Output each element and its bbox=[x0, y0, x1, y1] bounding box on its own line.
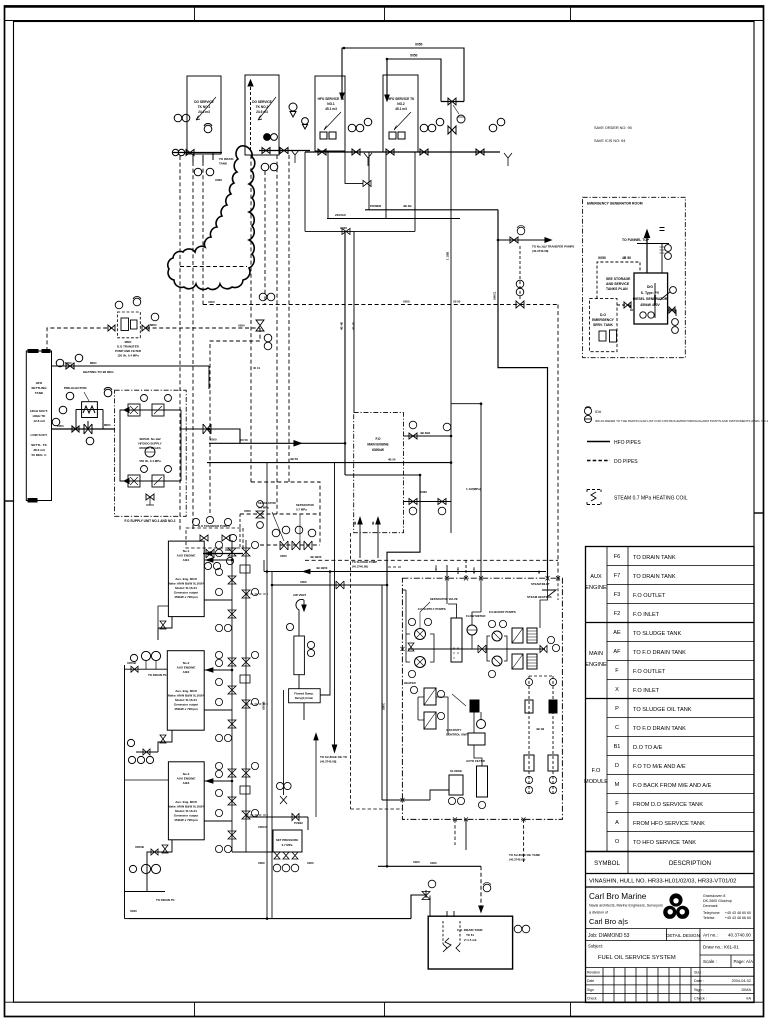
svg-text:TO SLUDGE PUMP: TO SLUDGE PUMP bbox=[352, 560, 377, 564]
no-pressure unit box bbox=[273, 830, 302, 852]
DO drop pipe bbox=[288, 155, 290, 482]
DO separator supply bbox=[240, 513, 320, 515]
instruments AE3 bbox=[215, 762, 222, 769]
svg-text:38.6 m3: 38.6 m3 bbox=[33, 448, 45, 452]
group column divider bbox=[606, 547, 608, 852]
footer strip divider 3 bbox=[570, 1002, 572, 1016]
top pump P1 bbox=[128, 404, 140, 416]
row lines bbox=[607, 565, 754, 567]
DO filter bypass line bbox=[47, 328, 112, 351]
main engine line from module bbox=[404, 435, 452, 437]
svg-text:4B 4B2: 4B 4B2 bbox=[420, 431, 431, 435]
arrowhead left bbox=[303, 569, 310, 573]
valve X shape bbox=[84, 424, 92, 434]
valve cluster on X020 bbox=[342, 228, 350, 234]
svg-text:SYMBOL: SYMBOL bbox=[594, 860, 620, 867]
svg-text:Aux. Eng. MCR: Aux. Eng. MCR bbox=[175, 689, 197, 693]
svg-text:Sign :: Sign : bbox=[694, 988, 704, 992]
DO service tank no.1 bbox=[187, 76, 221, 154]
svg-text:0.7 MPa: 0.7 MPa bbox=[282, 843, 293, 847]
main engine box feed bbox=[353, 231, 355, 412]
instrument balloon bbox=[672, 327, 679, 334]
subject row bottom bbox=[586, 967, 755, 969]
valve V-eg2 bbox=[669, 307, 675, 313]
instrument bbox=[264, 342, 272, 350]
svg-text:X060: X060 bbox=[65, 361, 72, 365]
filling arrowhead bbox=[340, 93, 344, 99]
rack2 elements bbox=[549, 678, 556, 685]
svg-text:X050: X050 bbox=[403, 300, 410, 304]
instrument balloon bbox=[665, 245, 672, 252]
heater coil bbox=[83, 406, 95, 413]
valve in box bbox=[222, 535, 230, 541]
svg-text:ID#: ID# bbox=[595, 409, 602, 414]
bypass valve bottom bbox=[146, 494, 154, 500]
svg-text:450kW x 720rpm: 450kW x 720rpm bbox=[174, 595, 198, 599]
filling line lower bbox=[387, 59, 441, 102]
tank3 drop right bbox=[327, 152, 329, 219]
svg-text:Revision: Revision bbox=[587, 971, 600, 975]
svg-text:HIGH SUCT.: HIGH SUCT. bbox=[30, 409, 48, 413]
level gauge balloon bbox=[670, 287, 677, 294]
instrument cluster bbox=[204, 562, 211, 569]
relief Y symbol right bbox=[504, 153, 512, 166]
scale/page divider bbox=[730, 955, 732, 968]
svg-text:SEPARATOR: SEPARATOR bbox=[258, 501, 277, 505]
funnel exhaust line bbox=[646, 237, 648, 273]
tank internal unit 1 bbox=[599, 331, 606, 341]
viscosity pipes bbox=[474, 712, 481, 733]
boundary crossing marks bbox=[401, 576, 561, 821]
tank4 drop mid bbox=[385, 152, 387, 219]
legend dashed line sample bbox=[587, 460, 610, 462]
module internal riser 1 bbox=[446, 578, 448, 604]
main engine return line bbox=[404, 501, 452, 503]
riser from 462 up bbox=[480, 404, 482, 579]
tank internal unit 2 bbox=[610, 330, 617, 342]
svg-text:Naval architects, Marine Engin: Naval architects, Marine Engineers, Surv… bbox=[589, 904, 663, 908]
svg-text:PUMP AND FILTER: PUMP AND FILTER bbox=[115, 349, 142, 353]
svg-text:TO HFO SERVICE TANK: TO HFO SERVICE TANK bbox=[633, 840, 696, 846]
fuel line to generator bbox=[617, 305, 634, 310]
svg-text:Make: MAN B&W 5L16/24: Make: MAN B&W 5L16/24 bbox=[168, 582, 204, 586]
X valve bbox=[206, 549, 214, 558]
valve chain AE1 bbox=[228, 548, 236, 556]
steam trap squares on tank3 bbox=[320, 132, 327, 139]
sludge line from module bbox=[523, 819, 525, 862]
legend table text bbox=[584, 554, 712, 846]
AE3 supply stub bbox=[204, 780, 232, 782]
svg-text:DIMA: DIMA bbox=[742, 988, 752, 992]
supply pump 2 bbox=[415, 657, 426, 668]
svg-text:SEPARATOR VALVE: SEPARATOR VALVE bbox=[430, 597, 458, 601]
air intake hash bbox=[660, 247, 665, 253]
suction line MDO bbox=[52, 428, 115, 430]
vent riser bbox=[315, 734, 317, 817]
svg-text:4B 50: 4B 50 bbox=[622, 256, 631, 260]
svg-text:X050: X050 bbox=[410, 54, 418, 58]
svg-text:MAIN ENGINE: MAIN ENGINE bbox=[367, 443, 388, 447]
valve chain AE3 bbox=[228, 769, 236, 777]
svg-text:Generator output: Generator output bbox=[174, 703, 199, 707]
svg-text:SEPARATOR: SEPARATOR bbox=[296, 503, 315, 507]
drain header bbox=[125, 891, 166, 893]
svg-text:O: O bbox=[615, 839, 620, 845]
instrument below bbox=[206, 168, 214, 176]
module main flow line bbox=[408, 648, 545, 650]
dashed crosstie above module bbox=[388, 566, 402, 568]
revision rows bbox=[586, 975, 755, 977]
svg-text:SAVE ICIS NO: 94: SAVE ICIS NO: 94 bbox=[594, 139, 625, 143]
DO line to module bbox=[557, 305, 559, 579]
svg-text:X050: X050 bbox=[210, 438, 217, 442]
svg-text:+45 43 48 66 60: +45 43 48 66 60 bbox=[725, 916, 751, 920]
valve on header bbox=[448, 98, 456, 105]
legend instrument symbol bbox=[584, 407, 591, 414]
separator instruments bbox=[272, 529, 280, 537]
symbol/description row bbox=[586, 873, 755, 875]
valve right bbox=[142, 325, 149, 331]
heater outlet bbox=[436, 697, 448, 735]
gauge leader bbox=[453, 105, 459, 114]
svg-text:X050: X050 bbox=[208, 300, 215, 304]
title block outline bbox=[586, 852, 755, 1003]
AE2 drain piping bbox=[136, 730, 172, 752]
svg-text:TK 61: TK 61 bbox=[466, 933, 474, 937]
svg-text:X020: X020 bbox=[307, 861, 314, 865]
rotated pipe labels bbox=[262, 252, 497, 710]
tank4 drop left bbox=[368, 152, 370, 210]
svg-text:F.O INLET: F.O INLET bbox=[633, 688, 660, 694]
rack riser down to pumps bbox=[405, 590, 407, 634]
fuel rack vertical 2 bbox=[245, 540, 247, 852]
instrument with dome bbox=[204, 125, 212, 133]
valve top right bbox=[448, 126, 456, 134]
unit inlet arrows bbox=[124, 408, 129, 413]
svg-text:SETTLING: SETTLING bbox=[31, 386, 47, 390]
drop pipes below manifold ticks bbox=[193, 153, 213, 163]
instrument balloon bbox=[665, 253, 672, 260]
valve bbox=[160, 735, 166, 743]
DO branch down bbox=[210, 328, 260, 514]
DO drop pipe bbox=[250, 155, 252, 482]
svg-text:Telefax: Telefax bbox=[703, 916, 715, 920]
module bottom-left pipe bbox=[402, 790, 449, 800]
svg-text:a division of: a division of bbox=[589, 911, 608, 915]
meter outlet bbox=[303, 703, 305, 720]
svg-text:SEE STORAGE: SEE STORAGE bbox=[606, 277, 631, 281]
valve in box bbox=[200, 535, 208, 541]
svg-text:F.O SUPPLY UNIT NO.1 AND NO.2: F.O SUPPLY UNIT NO.1 AND NO.2 bbox=[125, 519, 176, 523]
svg-text:HFO/DO SUPPLY: HFO/DO SUPPLY bbox=[138, 442, 161, 446]
svg-text:Art no.:: Art no.: bbox=[703, 933, 718, 938]
DO crossover in cloud bbox=[180, 266, 247, 268]
svg-text:FROM D.O SERVICE TANK: FROM D.O SERVICE TANK bbox=[633, 802, 703, 808]
svg-text:X06C: X06C bbox=[258, 861, 265, 865]
DO to module dashed bbox=[305, 559, 558, 561]
feed valves bbox=[292, 814, 299, 821]
svg-text:M: M bbox=[615, 782, 620, 788]
instrument pair on X050 bbox=[259, 293, 267, 301]
flow meter circle bbox=[467, 625, 477, 635]
branch C instruments bbox=[276, 782, 283, 789]
svg-text:F.O INLET: F.O INLET bbox=[633, 612, 660, 618]
sludge drop line bbox=[334, 463, 336, 752]
svg-text:SERV. TANK: SERV. TANK bbox=[593, 323, 613, 327]
tank2 vent dashed bbox=[250, 82, 252, 150]
AE1 fuel in bbox=[158, 606, 168, 628]
instruments AE1 bbox=[215, 541, 222, 548]
svg-text:X020: X020 bbox=[340, 226, 347, 230]
aux engine no.1 bbox=[168, 541, 204, 617]
svg-text:120 l/h, 0.4 MPa: 120 l/h, 0.4 MPa bbox=[117, 354, 139, 358]
svg-text:TO DRAIN TK: TO DRAIN TK bbox=[148, 673, 167, 677]
svg-text:FUEL OIL SERVICE SYSTEM: FUEL OIL SERVICE SYSTEM bbox=[598, 955, 676, 961]
svg-text:NO.1: NO.1 bbox=[327, 102, 335, 106]
svg-text:40 41: 40 41 bbox=[253, 366, 260, 370]
svg-text:Def.p(1) l/min: Def.p(1) l/min bbox=[295, 696, 314, 700]
svg-text:X050: X050 bbox=[238, 324, 245, 328]
module right dashed rack 2 bbox=[552, 676, 554, 795]
svg-text:No.2: No.2 bbox=[183, 661, 190, 665]
svg-text:ENGINE: ENGINE bbox=[585, 585, 607, 591]
flow meter box bbox=[289, 689, 321, 703]
sludge pump box bbox=[449, 775, 463, 795]
transfer line to risers bbox=[273, 584, 387, 586]
svg-text:HFO SERVICE TK: HFO SERVICE TK bbox=[388, 97, 415, 101]
svg-text:F3: F3 bbox=[614, 592, 621, 598]
F.O main engine dash-dot box bbox=[354, 413, 404, 533]
instrument pair bbox=[127, 739, 134, 746]
svg-text:45.1 m3: 45.1 m3 bbox=[325, 107, 337, 111]
filter inlet bbox=[474, 745, 482, 766]
svg-text:Model: 5L16-24: Model: 5L16-24 bbox=[175, 809, 197, 813]
instrument cluster tank3 bbox=[348, 124, 356, 132]
unit instruments bbox=[273, 864, 281, 872]
svg-text:X050B: X050B bbox=[262, 701, 266, 710]
drop instrument bbox=[483, 884, 491, 892]
tank level instruments bbox=[56, 359, 64, 367]
silencer marks bbox=[660, 228, 665, 231]
supply unit boundary bbox=[115, 390, 187, 516]
DO branch jog bbox=[251, 482, 320, 545]
heater E1 bbox=[512, 628, 523, 643]
bottom long drain line bbox=[129, 895, 426, 919]
svg-text:SAVE ORDER NO: 95: SAVE ORDER NO: 95 bbox=[594, 126, 632, 130]
drain valve bbox=[72, 426, 79, 432]
AE3 small box bbox=[240, 786, 250, 794]
instrument below bbox=[194, 168, 202, 176]
takeoff instrument bbox=[517, 227, 525, 235]
auto filter bbox=[477, 766, 488, 797]
svg-text:ID# AS REFER TO THE PARTICULAR: ID# AS REFER TO THE PARTICULAR LIST FOR … bbox=[595, 419, 768, 423]
svg-text:STEAM 0.7 MPa HEATING COIL: STEAM 0.7 MPa HEATING COIL bbox=[614, 496, 688, 502]
HFO service tank no.1 bbox=[315, 76, 345, 151]
svg-text:X060: X060 bbox=[420, 490, 427, 494]
top branch pipe bbox=[120, 410, 181, 429]
instrument above right bbox=[133, 298, 141, 306]
HFO riser to tanks bbox=[344, 231, 346, 475]
svg-text:(40.3740.08): (40.3740.08) bbox=[352, 565, 368, 569]
instrument cluster right of tank2 bbox=[289, 103, 297, 111]
module internal riser 4 bbox=[557, 578, 559, 600]
svg-text:F: F bbox=[615, 801, 619, 807]
valve left bbox=[108, 325, 115, 331]
svg-text:MODUL 28m3/h: MODUL 28m3/h bbox=[139, 446, 161, 450]
svg-text:50 DEG. C: 50 DEG. C bbox=[32, 453, 48, 457]
svg-text:SLUDGE: SLUDGE bbox=[450, 769, 462, 773]
feed instrument bbox=[428, 880, 436, 888]
meter bypass bbox=[471, 635, 473, 649]
filling header bbox=[441, 101, 464, 103]
valve bbox=[420, 149, 428, 155]
svg-text:Generator output: Generator output bbox=[174, 814, 199, 818]
svg-text:450kW x 720rpm: 450kW x 720rpm bbox=[174, 818, 198, 822]
svg-text:TO FUNNEL TOP: TO FUNNEL TOP bbox=[622, 238, 650, 242]
DO emergency service tank bbox=[590, 299, 618, 352]
AE1 supply stub bbox=[204, 559, 232, 561]
pump circle bbox=[141, 864, 150, 873]
module top entry 1 bbox=[446, 565, 448, 578]
svg-text:Make: MAN B&W 5L16/24: Make: MAN B&W 5L16/24 bbox=[168, 694, 204, 698]
svg-text:Check: Check bbox=[587, 997, 597, 1001]
border top thick line bbox=[4, 5, 764, 7]
instrument bbox=[130, 654, 137, 661]
valve on drain bbox=[363, 180, 371, 186]
svg-text:X: X bbox=[615, 687, 619, 693]
valve handle bbox=[87, 421, 89, 429]
svg-text:AIR VENT: AIR VENT bbox=[293, 593, 306, 597]
AE1 return stub bbox=[204, 599, 232, 601]
gauge balloon bbox=[457, 115, 465, 123]
svg-text:4B: 4B bbox=[353, 521, 357, 525]
svg-text:4B 1B: 4B 1B bbox=[536, 727, 544, 731]
instrument balloon bbox=[672, 319, 679, 326]
valve X on line bbox=[203, 424, 211, 434]
drop arrowhead bbox=[479, 906, 483, 912]
svg-text:HFO SERVICE TK: HFO SERVICE TK bbox=[318, 97, 345, 101]
valve bbox=[280, 148, 288, 154]
svg-text:IIA: IIA bbox=[746, 997, 751, 1001]
svg-text:1 1/2(MPa): 1 1/2(MPa) bbox=[466, 487, 481, 491]
rack1 elements bbox=[525, 678, 532, 685]
svg-text:12.8 m3: 12.8 m3 bbox=[33, 419, 45, 423]
pump circle bbox=[151, 651, 160, 660]
svg-text:A: A bbox=[615, 820, 619, 826]
instruments on pumps bbox=[141, 395, 148, 402]
svg-text:D.O TRANSFER PUMPS: D.O TRANSFER PUMPS bbox=[198, 524, 230, 528]
svg-text:4B50: 4B50 bbox=[472, 567, 476, 574]
valve on top line bbox=[66, 363, 74, 369]
svg-text:A/E1: A/E1 bbox=[183, 558, 190, 562]
valve bbox=[186, 150, 194, 156]
svg-text:SEPAR. No.1&2: SEPAR. No.1&2 bbox=[139, 437, 161, 441]
valve bbox=[476, 149, 484, 155]
svg-text:TANK: TANK bbox=[35, 391, 44, 395]
takeoff valve bbox=[510, 237, 518, 243]
svg-text:Generator output: Generator output bbox=[174, 591, 199, 595]
instrument balloon bbox=[178, 149, 184, 155]
instrument pair above manifold bbox=[174, 114, 182, 122]
svg-text:0.4 MPa: 0.4 MPa bbox=[258, 506, 269, 510]
DO service tank no.2 bbox=[245, 75, 279, 155]
svg-text:TANK: TANK bbox=[219, 162, 228, 166]
svg-text:S. Type: PV: S. Type: PV bbox=[641, 291, 660, 295]
svg-text:MDO: MDO bbox=[90, 361, 97, 365]
manifold X020 line bbox=[305, 230, 415, 232]
svg-text:Aux. Eng. MCR: Aux. Eng. MCR bbox=[175, 577, 197, 581]
electric heater label leader bbox=[84, 392, 89, 401]
svg-text:ENGINE: ENGINE bbox=[585, 662, 607, 668]
svg-text:F.O: F.O bbox=[592, 768, 601, 774]
flow meter inlet riser bbox=[320, 570, 331, 695]
svg-text:HFO: HFO bbox=[36, 381, 43, 385]
svg-text:X050: X050 bbox=[244, 509, 251, 513]
instrument pair bbox=[409, 421, 417, 429]
flow arrow bbox=[294, 441, 301, 446]
final filter 1 bbox=[527, 628, 537, 643]
heater bypass riser left bbox=[75, 410, 77, 430]
svg-text:AF: AF bbox=[613, 649, 621, 655]
svg-text:240VAC: 240VAC bbox=[335, 213, 347, 217]
svg-text:A/E2: A/E2 bbox=[183, 670, 190, 674]
heater connect pipes bbox=[418, 697, 424, 720]
svg-text:F.O OUTLET: F.O OUTLET bbox=[633, 593, 666, 599]
AE3 return stub bbox=[204, 820, 232, 822]
tank2 leader arrow bbox=[258, 97, 276, 120]
svg-text:STEAM INLET: STEAM INLET bbox=[531, 582, 550, 586]
svg-text:Subject:: Subject: bbox=[588, 944, 603, 949]
svg-text:4B 1B50: 4B 1B50 bbox=[316, 566, 328, 570]
sludge return line bbox=[382, 585, 402, 800]
svg-text:TO DRAIN TANK: TO DRAIN TANK bbox=[633, 555, 676, 561]
legend steam coil symbol bbox=[587, 490, 601, 505]
svg-text:F.O TO M/E AND A/E: F.O TO M/E AND A/E bbox=[633, 764, 686, 770]
svg-text:45.1 m3: 45.1 m3 bbox=[395, 107, 407, 111]
air intake line bbox=[661, 244, 663, 274]
svg-text:TO SLUDGE OIL TANK: TO SLUDGE OIL TANK bbox=[633, 707, 692, 713]
svg-text:4B 4B: 4B 4B bbox=[340, 322, 344, 330]
svg-text:F.O SUPPLY PUMPS: F.O SUPPLY PUMPS bbox=[418, 607, 446, 611]
svg-text:D/G: D/G bbox=[647, 285, 653, 289]
svg-text:F.O OUTLET: F.O OUTLET bbox=[633, 669, 666, 675]
HFO tanks manifold bbox=[305, 151, 500, 153]
svg-text:TO DRAIN: TO DRAIN bbox=[219, 157, 233, 161]
header strip divider 3 bbox=[570, 6, 572, 21]
svg-text:EMERGENCY: EMERGENCY bbox=[592, 318, 615, 322]
svg-text:Sign: Sign bbox=[587, 988, 594, 992]
heaters lower pair bbox=[424, 688, 436, 705]
booster pump 1 bbox=[492, 631, 502, 641]
level gauge leader bbox=[660, 292, 670, 300]
svg-text:DO PIPES: DO PIPES bbox=[614, 459, 638, 465]
valve bbox=[386, 149, 394, 155]
svg-text:DESCRIPTION: DESCRIPTION bbox=[669, 860, 711, 867]
viscosity circle bbox=[477, 720, 486, 729]
AE3 feed line bbox=[125, 779, 169, 781]
viscosity box bbox=[468, 733, 485, 745]
vertical link 451 bbox=[450, 436, 452, 533]
svg-text:4B 4B: 4B 4B bbox=[403, 204, 412, 208]
svg-text:Carl Bro Marine: Carl Bro Marine bbox=[589, 892, 647, 901]
AE2 small box bbox=[240, 675, 250, 683]
top filter F1 bbox=[152, 404, 164, 416]
svg-text:Model: 5L16-24: Model: 5L16-24 bbox=[175, 586, 197, 590]
dashed riser to takeoff bbox=[519, 246, 521, 301]
svg-text:EMERGENCY GENERATOR ROOM: EMERGENCY GENERATOR ROOM bbox=[587, 202, 643, 206]
left centerline tick bbox=[5, 500, 14, 502]
gauge pair on gen bbox=[640, 312, 646, 318]
